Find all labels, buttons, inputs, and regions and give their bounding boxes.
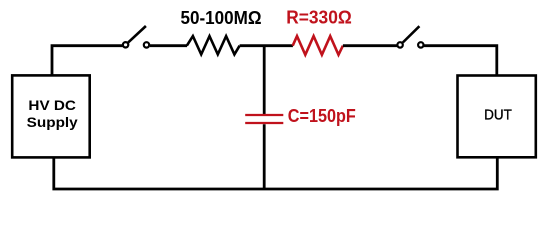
DUT box [458, 76, 536, 158]
wire R2 to switch S2 [343, 44, 398, 47]
resistor R2 R=330Ω [293, 36, 343, 55]
svg-text:HV DC: HV DC [28, 97, 76, 113]
resistor R1 50-100MΩ [187, 36, 240, 54]
capacitor C1 plates [245, 115, 283, 123]
node wire down to capacitor [263, 46, 266, 114]
HV DC Supply box [12, 75, 90, 157]
svg-text:DUT: DUT [484, 107, 512, 124]
svg-text:R=330Ω: R=330Ω [286, 7, 352, 28]
wire capacitor to bottom [263, 124, 266, 188]
wire S2 to DUT top [424, 46, 497, 77]
svg-text:C=150pF: C=150pF [288, 106, 356, 126]
switch S1 [123, 26, 149, 48]
wire from supply top to switch S1 [52, 46, 123, 77]
svg-text:Supply: Supply [27, 114, 78, 130]
switch S2 [397, 26, 423, 47]
wire S1 to resistor R1 [150, 44, 187, 47]
svg-text:50-100MΩ: 50-100MΩ [181, 8, 262, 28]
bottom wire supply to DUT [54, 157, 498, 189]
wire R1 to R2 through node [240, 44, 293, 47]
